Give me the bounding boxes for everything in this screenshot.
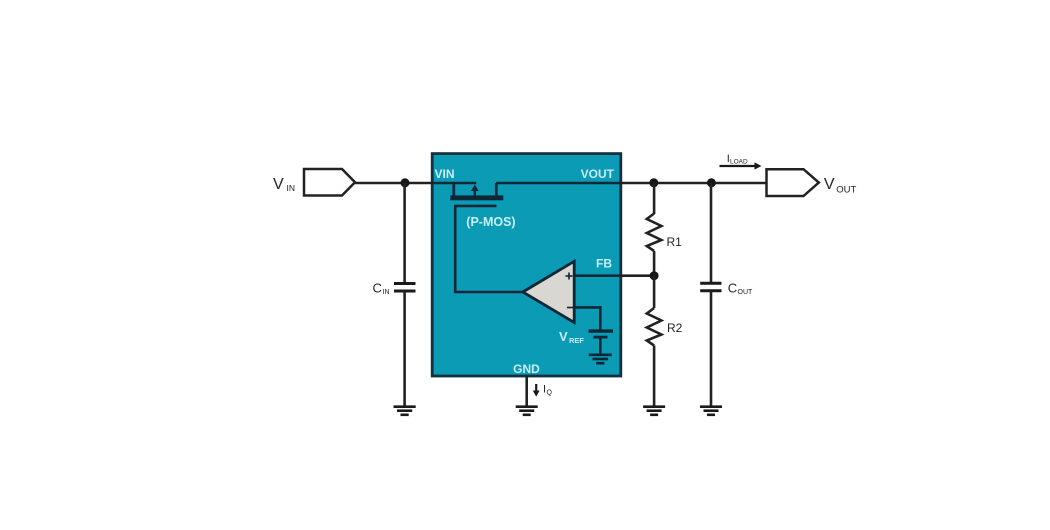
node A input node <box>401 178 410 187</box>
wire VOUT from transistor drain to box edge <box>496 182 621 185</box>
svg-text:VOUT: VOUT <box>581 167 615 181</box>
svg-text:Q: Q <box>547 390 553 397</box>
ground GND pin <box>516 407 538 415</box>
ground R2 <box>643 407 665 415</box>
input port connector VIN <box>304 169 355 196</box>
resistor R2 <box>647 308 662 346</box>
pin label FB <box>596 256 612 270</box>
current arrow ILOAD <box>720 162 762 169</box>
ground COUT <box>700 407 722 415</box>
node B output node R1 <box>649 178 658 187</box>
wire node B down to R1 <box>653 183 656 214</box>
ground VREF <box>589 355 612 363</box>
resistor R1 <box>647 214 662 252</box>
wire gate down to error amp output <box>455 206 523 292</box>
transistor Q1 P-MOS pass FET <box>450 183 503 206</box>
pin label VIN <box>435 167 455 181</box>
label IQ <box>543 384 553 397</box>
node D output node COUT <box>707 178 716 187</box>
svg-text:IN: IN <box>287 183 296 193</box>
wire VIN inside box to transistor source <box>432 182 476 185</box>
svg-text:V: V <box>559 329 568 344</box>
svg-text:C: C <box>373 281 382 296</box>
wire FB outside box to feedback node <box>620 274 654 277</box>
wire R1 to node C <box>653 251 656 276</box>
label ILOAD <box>727 153 748 166</box>
wire FB from op-amp plus input to box edge <box>574 274 621 277</box>
capacitor COUT <box>700 283 721 290</box>
svg-text:V: V <box>824 176 835 193</box>
label COUT <box>728 281 753 297</box>
node C feedback node <box>650 271 659 280</box>
wire node D down to COUT <box>710 183 713 283</box>
svg-text:R2: R2 <box>667 321 683 335</box>
svg-text:(P-MOS): (P-MOS) <box>466 215 515 229</box>
label VOUT port <box>824 176 857 196</box>
svg-text:R1: R1 <box>667 235 683 249</box>
svg-text:REF: REF <box>569 336 584 345</box>
wire R2 to ground <box>653 346 656 407</box>
label CIN <box>373 281 390 297</box>
wire VREF to ground <box>599 337 602 354</box>
wire node C down to R2 <box>653 276 656 308</box>
label VREF <box>559 329 584 345</box>
pin label GND <box>513 362 540 376</box>
label R1 <box>667 235 683 249</box>
op-amp U2 error amplifier <box>523 261 574 322</box>
pin label VOUT <box>581 167 615 181</box>
svg-text:C: C <box>728 281 737 296</box>
svg-text:GND: GND <box>513 362 540 376</box>
wire CIN to ground <box>403 291 406 407</box>
wire COUT to ground <box>710 291 713 407</box>
svg-text:LOAD: LOAD <box>730 159 748 166</box>
reference source VREF <box>589 331 614 337</box>
output port connector VOUT <box>767 169 819 196</box>
regulator IC body U1 <box>432 154 621 376</box>
svg-text:OUT: OUT <box>738 289 754 296</box>
wire GND pin to ground <box>525 376 528 407</box>
svg-text:OUT: OUT <box>836 184 856 195</box>
label R2 <box>667 321 683 335</box>
capacitor CIN <box>394 284 416 292</box>
label VIN port <box>273 176 295 193</box>
wire node A down to CIN <box>403 183 406 283</box>
ground CIN <box>394 407 416 415</box>
wire VOUT box edge to output port <box>620 182 767 185</box>
svg-text:V: V <box>273 176 284 193</box>
wire op-amp minus input to VREF <box>574 307 600 330</box>
current arrow IQ <box>533 384 540 397</box>
svg-text:IN: IN <box>383 289 390 296</box>
svg-text:VIN: VIN <box>435 167 455 181</box>
label (P-MOS) <box>466 215 515 229</box>
svg-text:FB: FB <box>596 256 612 270</box>
wire input port to box <box>355 182 433 185</box>
